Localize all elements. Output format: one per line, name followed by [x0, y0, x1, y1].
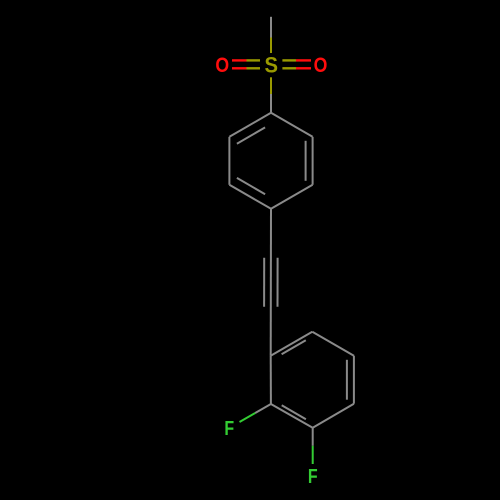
svg-text:O: O — [215, 55, 229, 78]
svg-text:O: O — [314, 55, 328, 78]
svg-text:F: F — [308, 464, 318, 487]
svg-text:S: S — [264, 54, 277, 78]
svg-text:F: F — [224, 416, 234, 439]
